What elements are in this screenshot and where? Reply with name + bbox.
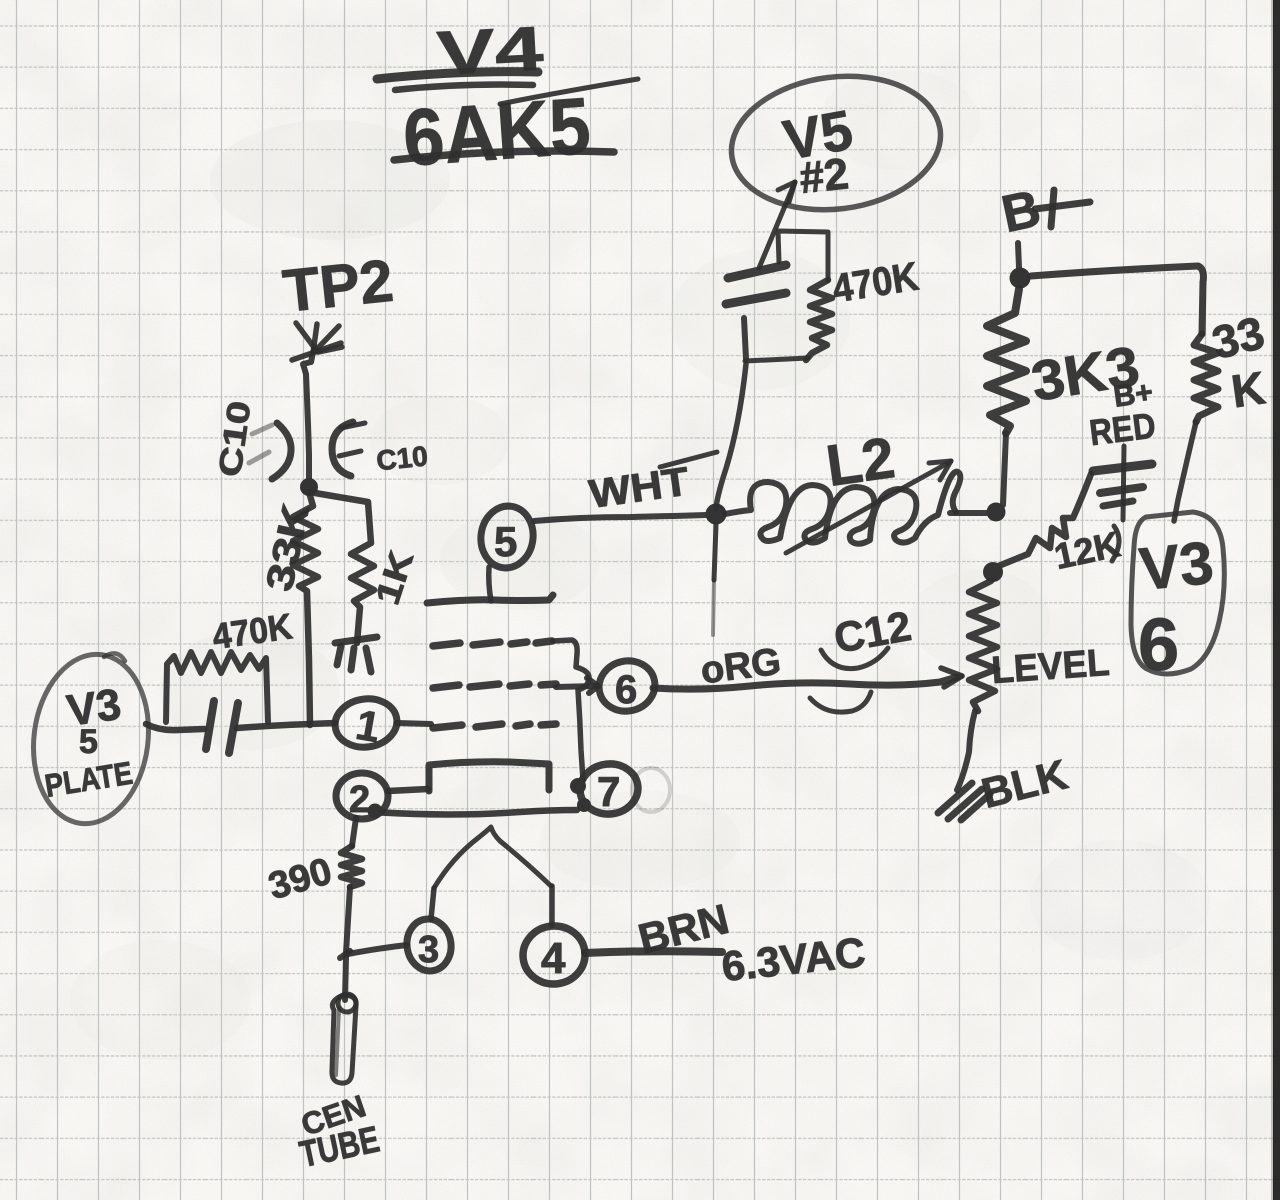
wire pin 4 to BRN — [585, 951, 722, 953]
tube V4 pin 3 — [404, 888, 455, 974]
resistor 1K — [315, 493, 421, 643]
svg-text:C10: C10 — [375, 440, 429, 476]
tube V4 pin 5 — [477, 503, 537, 601]
capacitor C12 arcs — [810, 648, 888, 712]
svg-text:#2: #2 — [797, 149, 851, 203]
wire V3 plate to coupling cap — [146, 724, 204, 730]
resistor 470K right bracket top — [778, 231, 828, 280]
wire WHT pin5 to node — [534, 515, 706, 521]
junction blob pin2 — [368, 804, 383, 819]
tube V4 pin 2 — [336, 773, 428, 821]
resistor 33K right — [1174, 306, 1269, 521]
node junction dot — [300, 478, 318, 496]
arrow wiper — [941, 668, 962, 687]
junction dot cathode pin7 — [570, 778, 586, 794]
label B+ RED — [1087, 376, 1158, 453]
tube V4 grid row 1 — [433, 641, 552, 646]
label WHT — [587, 452, 717, 517]
wire B+ lead — [1018, 243, 1019, 268]
tube V4 pin 6 — [594, 656, 659, 717]
wire pot to ground — [957, 711, 975, 790]
capacitor C10 — [249, 422, 365, 479]
title V4 — [377, 14, 546, 90]
wire L2 to 3K3 node — [950, 510, 988, 516]
wire V5 branch down to WHT node — [716, 364, 746, 508]
arrow wire to V5 — [759, 182, 795, 268]
svg-text:6: 6 — [615, 668, 637, 712]
svg-text:4: 4 — [541, 934, 566, 983]
wire B+ to 33K corner — [1031, 266, 1203, 334]
arrow through L2 — [786, 461, 951, 553]
junction dot pin7 lower — [577, 798, 591, 812]
junction tick pin3 branch — [340, 951, 350, 958]
arrow grid to pin 6 — [556, 678, 598, 693]
wire node down stub — [713, 525, 716, 635]
test point TP2 star — [292, 323, 342, 360]
ground BLK — [938, 783, 990, 820]
potentiometer LEVEL — [969, 581, 1111, 711]
svg-text:5: 5 — [494, 518, 517, 565]
tube V4 plate line — [427, 595, 553, 603]
cen tube connector — [332, 994, 356, 1083]
coupling capacitor plates — [206, 701, 238, 753]
node V5 ellipse — [724, 65, 949, 222]
wire to pin 3 — [348, 945, 407, 954]
wire pin2 down — [352, 818, 356, 846]
svg-text:3: 3 — [418, 929, 439, 971]
svg-text:2: 2 — [349, 779, 370, 821]
resistor 390 — [264, 846, 362, 908]
inductor L2 coil — [725, 472, 960, 544]
resistor 470K right — [806, 280, 832, 360]
title 6AK5 — [394, 79, 638, 183]
node V3 6 blob — [1131, 512, 1224, 686]
label B+ — [997, 180, 1090, 245]
resistor 470K left — [166, 652, 268, 722]
svg-text:V3: V3 — [1136, 529, 1216, 603]
resistor 33K left — [259, 492, 319, 725]
svg-text:LEVEL: LEVEL — [990, 642, 1111, 692]
svg-text:6: 6 — [1138, 603, 1179, 686]
wire cap to pin 1 — [237, 723, 335, 728]
svg-text:5: 5 — [79, 723, 98, 761]
junction dot WHT node — [706, 504, 727, 525]
heater filament — [434, 827, 551, 888]
junction dot 3K3 bottom — [987, 503, 1006, 522]
junction dot level top — [983, 562, 1003, 582]
ground 1K — [335, 637, 377, 672]
resistor 12K diagonal — [996, 474, 1124, 577]
tube V4 grid row 3 — [433, 724, 556, 728]
junction dot B+ — [1010, 268, 1031, 289]
svg-text:6AK5: 6AK5 — [400, 81, 593, 183]
wire down to cen tube — [345, 957, 346, 1000]
tube V4 grid row 2 — [433, 684, 556, 688]
tube V4 pin 7 — [578, 761, 641, 817]
tube V4 cathode — [429, 762, 549, 791]
svg-text:TP2: TP2 — [280, 247, 396, 325]
grid bracket wire right — [553, 640, 589, 780]
wire 390 down — [346, 887, 350, 953]
wire TP2 to node — [303, 352, 313, 484]
wire pin2 to pin7 bottom — [374, 810, 577, 815]
scan edge — [1271, 0, 1274, 1200]
resistor 3K3 — [987, 289, 1144, 505]
capacitor to V5 plates — [726, 265, 786, 304]
wire pin6 ORG to pot wiper — [653, 677, 957, 689]
svg-text:7: 7 — [597, 768, 620, 815]
resistor 470K right bottom bracket — [745, 358, 808, 361]
tube V4 pin 4 — [520, 886, 588, 987]
ghost ring pin 7 — [632, 768, 670, 812]
node V3 plate ellipse — [24, 648, 158, 831]
capacitor RED bypass — [1093, 446, 1152, 520]
tube V4 pin 1 — [332, 695, 431, 751]
capacitor bottom lead — [744, 318, 746, 359]
